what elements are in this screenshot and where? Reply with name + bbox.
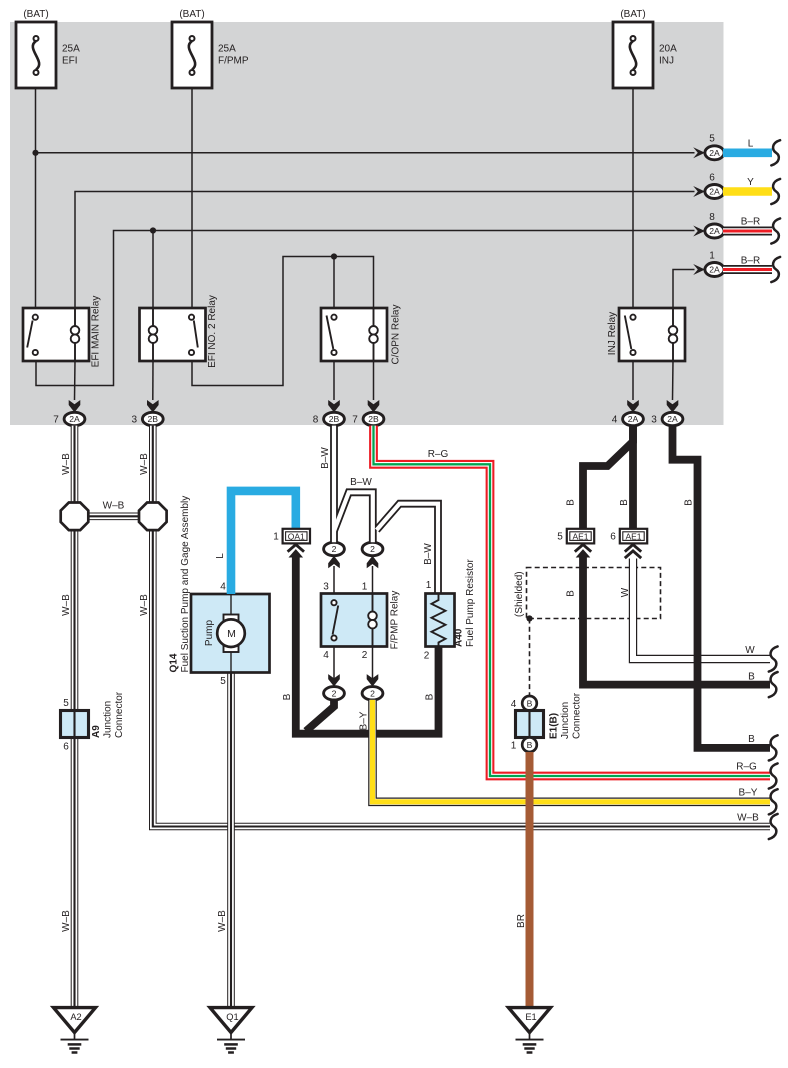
squiggle R-G	[769, 763, 778, 788]
wire B thick: QA1 to splice	[296, 556, 439, 734]
svg-text:1: 1	[511, 741, 517, 752]
junction ring right	[139, 503, 167, 531]
connector arrow below QA1	[288, 545, 304, 552]
svg-text:B–Y: B–Y	[739, 788, 758, 799]
wire B thick 4 2A to 5 AE1	[583, 426, 633, 529]
wire: INJ relay coil to terminal 1	[673, 270, 695, 309]
svg-text:1: 1	[362, 582, 368, 593]
svg-text:6: 6	[709, 172, 715, 183]
svg-text:B–W: B–W	[350, 477, 372, 488]
wire: drop to EFI NO.2 relay coil	[152, 231, 154, 309]
relay C/OPN switch	[327, 316, 334, 350]
wire: EFI MAIN coil to pin 7	[74, 361, 77, 400]
svg-text:C/OPN Relay: C/OPN Relay	[391, 304, 402, 364]
connector arrow into 2B pin 7	[368, 400, 380, 412]
svg-text:2A: 2A	[69, 414, 80, 424]
relay F/PMP coil	[372, 594, 374, 613]
svg-text:5: 5	[709, 134, 715, 145]
wire: horizontal feed to terminal 5	[36, 152, 695, 154]
svg-text:B: B	[566, 590, 577, 597]
wire: INJ fuse to INJ relay switch	[632, 75, 634, 309]
svg-text:3: 3	[323, 582, 329, 593]
svg-text:EFI NO. 2 Relay: EFI NO. 2 Relay	[207, 295, 218, 368]
relay F/PMP switch	[333, 606, 339, 635]
connector E1(B) pin 1 circle	[522, 737, 537, 752]
svg-text:3: 3	[132, 415, 138, 426]
arrow into oval pin2	[367, 674, 379, 686]
node shield drain	[526, 615, 532, 621]
svg-text:4: 4	[323, 650, 329, 661]
node: junction on EFI fuse feed	[32, 150, 38, 156]
resistor element	[432, 594, 446, 647]
svg-text:8: 8	[313, 415, 319, 426]
svg-text:1: 1	[426, 580, 432, 591]
svg-text:(BAT): (BAT)	[23, 9, 48, 20]
svg-text:Y: Y	[747, 177, 754, 188]
connector arrow into 2A pin 4	[627, 400, 639, 412]
shield drain dashed wire	[529, 619, 531, 697]
svg-text:F/PMP Relay: F/PMP Relay	[390, 591, 401, 650]
wire inside Q14 lower	[230, 647, 232, 673]
svg-text:AE1: AE1	[625, 531, 641, 541]
wire: EFI fuse to EFI MAIN relay switch	[35, 75, 37, 309]
svg-text:2: 2	[370, 544, 375, 554]
svg-text:4: 4	[220, 582, 226, 593]
svg-text:Junction: Junction	[560, 702, 571, 739]
terminal arrow pin 8	[693, 226, 705, 237]
svg-text:W–B: W–B	[217, 910, 228, 932]
wire W-B Q14 pin5 to ground Q1	[227, 673, 235, 1007]
wire F/PMP pin2 stub	[372, 647, 374, 681]
squiggle B-R lower	[771, 257, 780, 282]
svg-text:5: 5	[557, 531, 563, 542]
wire F/PMP pin4 stub	[333, 647, 335, 681]
svg-text:3: 3	[651, 415, 657, 426]
wire: C/OPN coil to pin 7	[373, 361, 375, 400]
wire: INJ coil to pin 3	[672, 361, 675, 400]
squiggle W	[769, 646, 778, 671]
node: junction to EFI NO.2 coil	[150, 227, 156, 233]
wire R-G from 7 2B to ECU	[374, 426, 771, 776]
terminal 5 2A	[705, 146, 724, 160]
svg-text:A9: A9	[91, 725, 102, 738]
resistor A40 box	[426, 594, 455, 647]
shield dashed box	[527, 568, 661, 619]
svg-text:INJ Relay: INJ Relay	[607, 312, 618, 355]
junction ring left	[61, 503, 89, 531]
svg-text:W–B: W–B	[737, 813, 759, 824]
connector 7 2A	[64, 412, 85, 425]
relay C/OPN coil	[373, 308, 375, 327]
svg-text:7: 7	[53, 415, 59, 426]
svg-text:2A: 2A	[709, 226, 720, 236]
svg-text:1: 1	[273, 531, 279, 542]
svg-text:L: L	[215, 553, 226, 559]
svg-text:EFI: EFI	[62, 56, 78, 67]
pump assembly Q14 box	[191, 594, 270, 673]
svg-text:1: 1	[709, 250, 715, 261]
svg-text:8: 8	[709, 212, 715, 223]
svg-text:B: B	[748, 734, 755, 745]
svg-text:BR: BR	[516, 914, 527, 928]
wire: EFI MAIN relay coil riser	[75, 192, 695, 309]
svg-text:Fuel Suction Pump and Gage Ass: Fuel Suction Pump and Gage Assembly	[180, 496, 191, 673]
svg-text:B–Y: B–Y	[359, 711, 370, 730]
wire: C/OPN switch to pin 8	[333, 361, 335, 400]
relay EFI MAIN coil	[74, 308, 76, 327]
wire inside Q14 upper	[230, 594, 232, 620]
connector 5 AE1	[567, 529, 594, 544]
svg-text:4: 4	[511, 699, 517, 710]
svg-text:2: 2	[424, 651, 430, 662]
svg-text:QA1: QA1	[288, 531, 305, 541]
wire Y to cowl (yellow)	[723, 187, 772, 196]
svg-text:Junction: Junction	[103, 701, 114, 738]
svg-text:2A: 2A	[709, 187, 720, 197]
relay C/OPN box	[321, 308, 387, 361]
svg-text:W–B: W–B	[139, 594, 150, 616]
relay EFI MAIN box	[23, 308, 89, 361]
oval 2 below pin4	[324, 687, 345, 700]
svg-text:B: B	[619, 499, 630, 506]
relay EFI NO.2 box	[140, 308, 206, 361]
wire: EFI NO.2 coil to pin 3	[152, 361, 154, 400]
svg-text:2: 2	[370, 688, 375, 698]
wire: EFI NO.2 switch out to C/OPN relay	[192, 257, 374, 386]
wire B thick 3 2A down right side	[673, 426, 771, 748]
relay INJ coil	[672, 308, 674, 327]
wire: F/PMP fuse to EFI NO.2 relay switch	[191, 75, 193, 309]
wire: EFI MAIN switch out to terminal 8 feed	[36, 231, 695, 386]
relay INJ switch	[625, 316, 632, 350]
svg-text:B: B	[425, 693, 436, 700]
wire: drop to C/OPN relay switch	[333, 257, 335, 313]
squiggle B upper	[769, 672, 778, 697]
oval 2 above pin1	[362, 542, 383, 555]
connector arrow into 2A pin 3	[667, 400, 679, 412]
arrow into oval pin3	[328, 556, 340, 568]
relay INJ box	[619, 308, 685, 361]
svg-text:EFI MAIN Relay: EFI MAIN Relay	[91, 296, 102, 368]
connector arrow into 2B pin 8	[328, 400, 340, 412]
svg-text:B: B	[527, 740, 533, 750]
svg-text:25A: 25A	[62, 44, 80, 55]
svg-text:INJ: INJ	[659, 56, 674, 67]
svg-text:W–B: W–B	[61, 453, 72, 475]
squiggle B-R upper	[771, 218, 780, 243]
squiggle Y	[771, 179, 780, 204]
svg-text:W–B: W–B	[139, 453, 150, 475]
ground E1	[509, 1008, 551, 1033]
wire B-W from 8 2B to F/PMP pin3 with branches to pin1 and A40	[330, 426, 338, 543]
terminal arrow pin 1	[693, 264, 705, 275]
svg-text:B–W: B–W	[320, 447, 331, 469]
svg-text:Connector: Connector	[114, 691, 125, 738]
arrow into oval pin1	[367, 556, 379, 568]
svg-text:(Shielded): (Shielded)	[514, 571, 525, 617]
svg-text:B: B	[527, 699, 533, 709]
motor M brush lower	[224, 646, 239, 652]
wire W from 6 AE1 to right	[633, 559, 770, 660]
squiggle B-Y	[769, 789, 778, 814]
fuse 25A F/PMP	[172, 22, 212, 88]
svg-text:Q14: Q14	[169, 653, 180, 672]
terminal 8 2A	[705, 224, 724, 238]
svg-text:B: B	[282, 693, 293, 700]
terminal arrow pin 5	[693, 147, 705, 158]
wire F/PMP pin1 stub	[372, 566, 374, 594]
svg-text:(BAT): (BAT)	[620, 9, 645, 20]
svg-text:2B: 2B	[368, 414, 379, 424]
svg-text:A40: A40	[454, 628, 465, 647]
svg-text:20A: 20A	[659, 44, 677, 55]
connector E1(B) pin 4 circle	[522, 696, 537, 711]
svg-text:E1: E1	[525, 1012, 536, 1022]
svg-text:W: W	[620, 587, 631, 597]
svg-text:B–R: B–R	[741, 256, 760, 267]
svg-text:A2: A2	[70, 1012, 81, 1022]
arrow into oval pin4	[328, 674, 340, 686]
connector 3 2B	[142, 412, 163, 425]
svg-text:2: 2	[362, 650, 368, 661]
terminal 1 2A	[705, 263, 724, 277]
svg-text:B: B	[748, 672, 755, 683]
svg-text:2B: 2B	[148, 414, 159, 424]
wire W-B from 3 2B down and right	[153, 426, 770, 827]
wire F/PMP pin3 stub	[333, 566, 335, 594]
terminal 6 2A	[705, 185, 724, 199]
svg-text:W–B: W–B	[61, 910, 72, 932]
motor M brush upper	[224, 615, 239, 621]
svg-text:E1(B): E1(B)	[549, 713, 560, 739]
motor M circle	[217, 619, 245, 647]
node: junction to C/OPN switch	[331, 253, 337, 259]
connector QA1	[283, 529, 310, 544]
svg-text:5: 5	[220, 676, 226, 687]
oval 2 below pin2	[362, 687, 383, 700]
wire B-R upper	[723, 227, 772, 236]
ground Q1	[210, 1008, 252, 1033]
squiggle L	[771, 140, 780, 165]
svg-text:2: 2	[332, 544, 337, 554]
terminal arrow pin 6	[693, 186, 705, 197]
connector E1(B) box	[516, 711, 544, 738]
svg-text:7: 7	[352, 415, 358, 426]
svg-text:4: 4	[612, 415, 618, 426]
junction connector A9	[61, 711, 89, 738]
svg-text:Q1: Q1	[226, 1012, 238, 1022]
svg-text:W: W	[745, 645, 755, 656]
wire B thick 4 2A to 6 AE1	[629, 426, 637, 529]
svg-text:L: L	[748, 139, 754, 150]
svg-text:5: 5	[63, 698, 69, 709]
wire B-Y from F/PMP pin2	[373, 700, 771, 802]
wire: INJ switch to pin 4	[632, 361, 634, 400]
svg-text:R–G: R–G	[428, 449, 449, 460]
svg-text:Pump: Pump	[204, 620, 215, 647]
wire B thick 5 AE1 through shield to right	[583, 556, 770, 685]
svg-text:AE1: AE1	[572, 531, 588, 541]
connector 4 2A	[623, 412, 644, 425]
svg-text:2: 2	[332, 688, 337, 698]
svg-text:(BAT): (BAT)	[179, 9, 204, 20]
oval 2 above pin3	[324, 542, 345, 555]
wire B-R lower	[723, 265, 772, 274]
wire L (blue) pump to QA1	[231, 491, 296, 594]
wire L to cowl (blue)	[723, 149, 772, 158]
svg-text:B: B	[684, 499, 695, 506]
connector arrow into 2A pin 7	[69, 400, 81, 412]
wire W-B between junction rings	[88, 512, 140, 520]
connector 8 2B	[324, 412, 345, 425]
svg-text:Fuel Pump Resistor: Fuel Pump Resistor	[465, 559, 476, 647]
svg-text:2A: 2A	[667, 414, 678, 424]
svg-text:25A: 25A	[218, 44, 236, 55]
fuse 20A INJ	[613, 22, 653, 88]
connector 7 2B	[363, 412, 384, 425]
svg-text:2A: 2A	[709, 148, 720, 158]
wire W-B from 7 2A down to ground A2	[71, 426, 79, 1007]
squiggle B lower	[769, 735, 778, 760]
svg-text:2A: 2A	[628, 414, 639, 424]
svg-text:B–W: B–W	[423, 543, 434, 565]
svg-text:6: 6	[63, 742, 69, 753]
connector chevrons below 6 AE1	[625, 545, 641, 552]
connector 3 2A	[662, 412, 683, 425]
svg-text:2B: 2B	[329, 414, 340, 424]
svg-text:B–R: B–R	[741, 217, 760, 228]
relay EFI NO.2 switch	[194, 321, 198, 348]
relay EFI NO.2 coil	[152, 308, 154, 327]
relay F/PMP box	[321, 594, 387, 647]
ground A2	[54, 1008, 96, 1033]
svg-text:6: 6	[610, 531, 616, 542]
junction block shaded area	[10, 22, 724, 425]
wire BR to ground E1	[526, 752, 534, 1007]
squiggle W-B right	[769, 814, 778, 839]
connector 6 AE1	[620, 529, 647, 544]
svg-text:R–G: R–G	[736, 762, 757, 773]
wire B thick branch to F/PMP pin4	[306, 700, 334, 731]
relay EFI MAIN switch	[27, 321, 32, 348]
connector arrow below 5 AE1	[575, 545, 591, 552]
svg-text:2A: 2A	[709, 265, 720, 275]
svg-text:F/PMP: F/PMP	[218, 56, 249, 67]
svg-text:Connector: Connector	[572, 692, 583, 739]
svg-text:M: M	[227, 628, 236, 640]
connector arrow into 2B pin 3	[147, 400, 159, 412]
svg-text:B: B	[566, 499, 577, 506]
svg-text:W–B: W–B	[103, 501, 125, 512]
svg-text:W–B: W–B	[61, 594, 72, 616]
fuse 25A EFI	[16, 22, 56, 88]
